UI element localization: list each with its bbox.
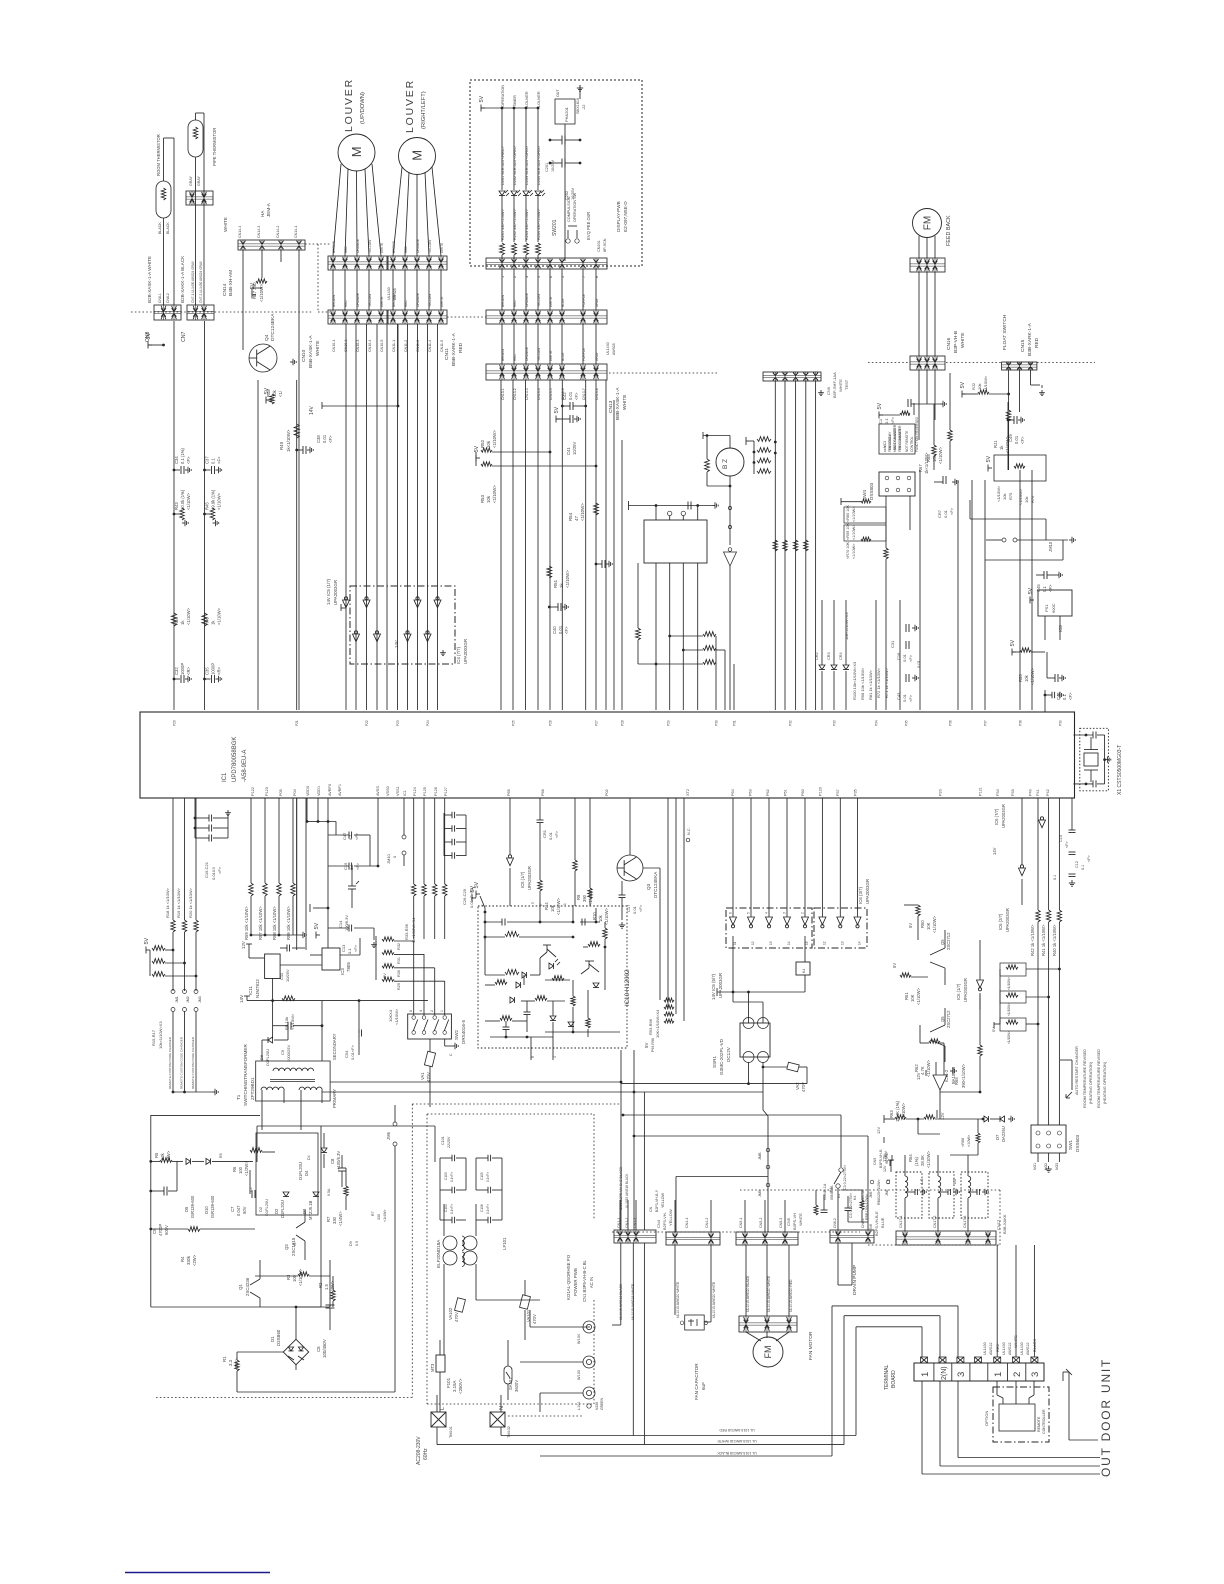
svg-text:<1/10W>: <1/10W> (1007, 1031, 1011, 1044)
label FLOAT SWITCH (1002, 314, 1008, 350)
resistor R49 (279, 424, 299, 452)
svg-text:<1/10W>: <1/10W> (938, 446, 943, 464)
svg-text:<F>: <F> (1087, 854, 1091, 862)
diode D5 (184, 1158, 204, 1218)
svg-text:ORANGE: ORANGE (525, 293, 529, 307)
svg-text:CR1: CR1 (542, 829, 547, 838)
svg-text:WHITE: WHITE (960, 333, 966, 348)
svg-text:10k: 10k (486, 440, 491, 448)
svg-text:B3PS-VH: B3PS-VH (792, 1213, 797, 1230)
svg-text:R9: R9 (576, 894, 581, 900)
svg-text:R45: R45 (205, 502, 210, 510)
svg-text:RED: RED (513, 300, 517, 307)
svg-text:AWG22: AWG22 (989, 1343, 993, 1355)
wire (919, 236, 935, 258)
svg-text:<F>: <F> (554, 830, 559, 838)
wire (919, 272, 935, 356)
svg-text:UPA2003GR: UPA2003GR (963, 978, 968, 1002)
svg-text:10k: 10k (550, 904, 555, 912)
svg-text:2: 2 (801, 912, 805, 914)
svg-text:<250V>: <250V> (458, 1378, 463, 1394)
svg-text:R67: R67 (918, 464, 923, 472)
wire (746, 1245, 793, 1316)
svg-text:R32: R32 (397, 943, 401, 950)
svg-text:BLACK: BLACK (158, 222, 162, 234)
connector CN17 (896, 1214, 1007, 1245)
svg-text:WHITE: WHITE (380, 297, 384, 307)
svg-text:YELLOW: YELLOW (428, 294, 432, 307)
opamp IC11-2 (916, 1056, 956, 1119)
caps C10 C12 (1053, 798, 1091, 886)
connector CN1 (614, 1200, 656, 1243)
svg-text:R19 1k <1/10W>: R19 1k <1/10W> (176, 887, 181, 918)
svg-text:YELLOW: YELLOW (428, 240, 432, 253)
svg-text:LOUVER: LOUVER (525, 91, 529, 107)
svg-text:Q1: Q1 (238, 1284, 243, 1290)
svg-text:5V: 5V (554, 406, 560, 413)
svg-text:ROOM TEMPERATURE REVISED: ROOM TEMPERATURE REVISED (1083, 1049, 1087, 1108)
svg-text:<F>: <F> (1065, 840, 1069, 848)
label B2P3 (830, 1149, 889, 1200)
svg-text:CN13-2: CN13-2 (513, 388, 517, 400)
capacitor C6 (149, 1161, 177, 1236)
inverter D8 (724, 548, 737, 710)
svg-text:WHITE: WHITE (549, 351, 553, 361)
svg-text:RJ2: RJ2 (971, 382, 976, 390)
wire (297, 798, 306, 950)
svg-text:P30: P30 (715, 720, 719, 726)
svg-text:C32: C32 (174, 667, 179, 675)
inverter IC5 pin0 (343, 597, 350, 608)
svg-text:P64: P64 (731, 789, 735, 796)
svg-text:0.01: 0.01 (568, 391, 573, 400)
svg-text:VA1: VA1 (420, 1072, 425, 1080)
svg-text:RED: RED (344, 300, 348, 307)
motor FM fan (746, 1331, 814, 1367)
svg-text:28.0K: 28.0K (920, 1155, 925, 1166)
blue reference line (125, 1572, 270, 1574)
jumper JM1C (386, 798, 406, 866)
diodes CR2-4 (815, 600, 849, 710)
svg-text:SW1: SW1 (1068, 1140, 1073, 1150)
svg-text:TEST: TEST (844, 379, 849, 390)
svg-text:JM2: JM2 (186, 996, 190, 1003)
svg-text:P31: P31 (733, 720, 737, 726)
svg-text:EZ-097,NSE-D: EZ-097,NSE-D (623, 201, 628, 232)
wire bus mid (733, 798, 805, 917)
svg-text:CN11: CN11 (444, 348, 450, 360)
resistor R64 (908, 1110, 984, 1168)
svg-text:C201: C201 (545, 163, 549, 172)
resistor R2 (318, 1276, 335, 1307)
svg-text:<1/10W>: <1/10W> (298, 1268, 303, 1286)
svg-text:<1/2W>: <1/2W> (244, 1161, 249, 1176)
wire (174, 321, 205, 710)
svg-text:R33-R36: R33-R36 (404, 923, 409, 940)
svg-text:5V: 5V (146, 332, 152, 339)
LED D202 (511, 95, 521, 261)
svg-text:AW928: AW928 (612, 343, 616, 355)
svg-text:5V: 5V (892, 963, 897, 968)
svg-text:60Hz: 60Hz (423, 1448, 429, 1460)
svg-text:C31: C31 (890, 640, 895, 648)
svg-text:CR3: CR3 (827, 652, 831, 660)
svg-text:1000/25V: 1000/25V (286, 1045, 291, 1062)
svg-text:<1/10W>: <1/10W> (492, 430, 497, 448)
capacitor C47 (297, 798, 370, 935)
svg-text:K4: K4 (802, 969, 806, 973)
svg-text:AWG22: AWG22 (1008, 1343, 1012, 1355)
labels wire colors (501, 293, 599, 307)
wire bus CN11 to IC1 (398, 324, 438, 710)
jumper bubbles (728, 506, 731, 528)
svg-text:B2P3-VH-: B2P3-VH- (662, 1211, 667, 1230)
svg-text:C106: C106 (480, 1204, 484, 1212)
svg-text:RED: RED (404, 300, 408, 307)
svg-text:<F>: <F> (354, 832, 359, 840)
wire (251, 798, 293, 883)
svg-text:JEM-A: JEM-A (266, 202, 271, 217)
svg-text:N: N (499, 1406, 505, 1410)
svg-text:330k: 330k (186, 1255, 191, 1265)
label UL1430 (387, 287, 397, 300)
svg-text:10/25V: 10/25V (551, 159, 555, 172)
svg-text:UL1015 AWG20 WHITE: UL1015 AWG20 WHITE (767, 1275, 771, 1312)
svg-text:AVRF0: AVRF0 (328, 784, 332, 796)
svg-text:<R60 10K: <R60 10K (846, 505, 850, 522)
svg-text:<1/10W>: <1/10W> (852, 543, 856, 559)
wires to outdoor (922, 1381, 1100, 1474)
svg-text:C14: C14 (338, 920, 343, 928)
resistor R70b (846, 542, 856, 559)
labels wire colors (332, 293, 384, 307)
capacitor C32 (173, 663, 192, 683)
svg-text:R7: R7 (326, 1216, 331, 1222)
resistor array R73-78 (746, 437, 777, 474)
svg-text:CN4: CN4 (656, 1219, 661, 1228)
svg-text:P33: P33 (833, 720, 837, 726)
wire (243, 250, 299, 710)
svg-text:OPTION: OPTION (984, 1411, 989, 1426)
svg-text:5V: 5V (877, 402, 883, 409)
svg-text:<1/10W>: <1/10W> (1007, 977, 1011, 990)
svg-text:P04: P04 (293, 789, 297, 796)
wire (196, 113, 205, 305)
IC U1 main micro (140, 712, 1075, 798)
svg-text:2SC4236: 2SC4236 (245, 1277, 250, 1296)
resistor R51 (547, 566, 570, 588)
svg-text:R6: R6 (232, 1166, 237, 1172)
wire (173, 798, 196, 920)
svg-text:2(N): 2(N) (941, 1366, 948, 1380)
svg-text:AW928: AW928 (393, 288, 397, 300)
svg-text:FEED BACK: FEED BACK (946, 215, 952, 246)
connector M1 plug (328, 256, 387, 270)
svg-text:5V: 5V (474, 445, 480, 452)
svg-text:JM6: JM6 (386, 1131, 391, 1140)
wire (333, 270, 381, 310)
svg-text:D10: D10 (204, 1206, 209, 1214)
terminal TM101 (431, 1395, 453, 1445)
svg-text:P41: P41 (1036, 789, 1040, 796)
svg-text:P122: P122 (251, 787, 255, 796)
svg-text:BROWN: BROWN (392, 240, 396, 253)
svg-text:WHITE: WHITE (380, 243, 384, 253)
svg-text:P05: P05 (279, 789, 283, 796)
svg-text:-22: -22 (582, 105, 586, 111)
svg-text:P37: P37 (836, 789, 840, 796)
capacitor C41 (554, 406, 580, 455)
dotted net line (305, 244, 330, 312)
svg-text:0.1<F>: 0.1<F> (450, 1172, 454, 1182)
svg-text:CN14-2: CN14-2 (276, 226, 280, 238)
resistors R40-42 (1030, 798, 1062, 1125)
capacitor C15 (328, 798, 379, 870)
wire (502, 324, 596, 364)
svg-text:R1: R1 (222, 1356, 227, 1362)
arrester SA101 (504, 1340, 519, 1400)
svg-text:DSS803: DSS803 (869, 482, 874, 500)
svg-text:P34: P34 (996, 789, 1000, 796)
svg-text:JMB: JMB (758, 1152, 762, 1160)
connector CN9 (486, 310, 607, 324)
LED D201 (499, 85, 509, 261)
svg-text:C42: C42 (562, 392, 567, 400)
switch SW201 (552, 192, 607, 252)
svg-text:FAN CAPACITOR: FAN CAPACITOR (694, 1363, 699, 1400)
capacitor C40 (548, 603, 569, 634)
label CN16 (946, 331, 966, 353)
svg-text:0.1: 0.1 (1081, 865, 1085, 870)
svg-text:R14: R14 (544, 902, 549, 910)
svg-text:R49: R49 (279, 441, 284, 450)
svg-text:22/25V: 22/25V (447, 1136, 451, 1148)
svg-text:Q5: Q5 (940, 939, 945, 945)
svg-text:0.01: 0.01 (902, 653, 907, 662)
svg-text:UL1430: UL1430 (387, 287, 391, 300)
svg-text:D1FL20U: D1FL20U (280, 1200, 285, 1218)
svg-text:1.5: 1.5 (324, 1284, 329, 1290)
svg-text:D2: D2 (258, 1206, 263, 1212)
svg-text:10K: 10K (910, 994, 915, 1002)
varistor VA1 (420, 1039, 436, 1107)
svg-text:WHITE: WHITE (838, 379, 843, 392)
svg-text:CN5: CN5 (786, 1217, 791, 1226)
svg-text:BROWN: BROWN (501, 348, 505, 361)
caps AC filter C101-106 (440, 1136, 502, 1223)
resistor R61 (892, 963, 928, 1005)
svg-text:10k: 10k (1024, 674, 1029, 682)
svg-text:CN: CN (649, 1206, 653, 1212)
svg-text:14V: 14V (309, 405, 315, 415)
svg-text:IC4 (7/7): IC4 (7/7) (456, 646, 461, 664)
svg-text:<R>: <R> (217, 667, 222, 675)
svg-text:CN1 B3P5-VH-B-C BLACK: CN1 B3P5-VH-B-C BLACK (619, 1166, 623, 1210)
svg-text:R63: R63 (889, 1110, 894, 1118)
svg-text:<F>: <F> (564, 626, 569, 634)
svg-text:<10W>: <10W> (967, 1134, 971, 1147)
svg-text:LOUVER: LOUVER (343, 78, 355, 132)
svg-text:1: 1 (563, 903, 567, 905)
svg-text:14V IC5 (5/7): 14V IC5 (5/7) (711, 973, 716, 1000)
svg-text:BROWN: BROWN (501, 294, 505, 307)
label NC (686, 827, 691, 841)
labels wire colors (392, 293, 444, 307)
svg-text:G5NB-1A: G5NB-1A (861, 1189, 865, 1205)
svg-text:B3B-XARK-1-A: B3B-XARK-1-A (1027, 322, 1033, 356)
svg-text:P60: P60 (801, 789, 805, 796)
svg-text:P123: P123 (265, 787, 269, 796)
svg-text:R75: R75 (1008, 492, 1013, 500)
connector CN9 test (763, 372, 849, 398)
svg-text:0.01: 0.01 (902, 693, 907, 702)
svg-text:C1: C1 (878, 418, 883, 424)
resistor RJ2 (960, 375, 1045, 397)
svg-text:CN8-2: CN8-2 (166, 293, 170, 303)
caps C26-C29 (444, 812, 474, 908)
svg-text:-A58-9EU-A: -A58-9EU-A (242, 750, 248, 782)
svg-text:1: 1 (920, 1372, 931, 1377)
svg-text:<F>: <F> (908, 694, 913, 702)
svg-text:<1/4W>: <1/4W> (338, 1211, 343, 1226)
svg-text:<F>: <F> (574, 392, 579, 400)
svg-text:P25: P25 (512, 720, 516, 726)
svg-text:B5P-SHF-1AA: B5P-SHF-1AA (832, 372, 837, 398)
svg-text:0.1: 0.1 (1062, 694, 1067, 700)
svg-text:R2: R2 (318, 1282, 323, 1288)
svg-text:CN11-1: CN11-1 (392, 340, 396, 352)
svg-text:C3 0.22<275V>: C3 0.22<275V> (843, 1165, 847, 1190)
svg-text:UL 1015 AWG18 WHITE: UL 1015 AWG18 WHITE (717, 1439, 757, 1443)
svg-text:CN9: CN9 (826, 386, 831, 395)
resistor RJ1 (993, 393, 1011, 470)
svg-text:R20 1k <1/10W>: R20 1k <1/10W> (188, 887, 193, 918)
label CN10 header (301, 335, 321, 368)
svg-text:UL1015 AWG20 BLACK: UL1015 AWG20 BLACK (746, 1275, 750, 1312)
svg-text:5V: 5V (382, 973, 387, 978)
svg-text:IC1: IC1 (222, 772, 228, 782)
svg-text:470V: 470V (454, 1312, 459, 1322)
svg-text:UPA2003GR: UPA2003GR (865, 879, 870, 904)
connector CN14 (222, 202, 305, 296)
svg-text:N.C.: N.C. (687, 827, 691, 835)
svg-text:<1/10W>: <1/10W> (1007, 1003, 1011, 1016)
svg-text:JM3: JM3 (198, 996, 202, 1003)
eyelets W104 W103 L101 (577, 1321, 604, 1410)
svg-text:R100 10k<1/10W>X3: R100 10k<1/10W>X3 (852, 661, 857, 700)
svg-text:R54: R54 (568, 512, 573, 521)
svg-text:<1/10W>: <1/10W> (926, 1150, 931, 1168)
svg-text:CN16: CN16 (946, 337, 952, 350)
svg-text:390: 390 (582, 894, 587, 902)
svg-text:<1/10W>: <1/10W> (186, 492, 191, 510)
svg-text:<F>: <F> (908, 654, 913, 662)
resistor R53 (474, 445, 597, 503)
resistor R68 (926, 373, 952, 470)
resistor R46 (202, 607, 222, 626)
svg-text:SSR1: SSR1 (712, 1056, 717, 1068)
svg-text:CN17-2: CN17-2 (933, 1216, 937, 1228)
svg-text:D6: D6 (259, 1054, 264, 1060)
svg-text:R5: R5 (219, 1153, 223, 1158)
svg-text:R204 330 <1/4W>: R204 330 <1/4W> (537, 208, 541, 240)
svg-text:<1/10W>: <1/10W> (217, 607, 222, 625)
svg-text:G3MC-202PL-VD: G3MC-202PL-VD (719, 1038, 724, 1075)
svg-text:14V: 14V (992, 847, 997, 855)
jumpers JMB JM5 (758, 1148, 770, 1197)
diode D2 (274, 1192, 289, 1218)
svg-text:BLUE: BLUE (561, 299, 565, 307)
svg-text:JM10: JM10 (386, 853, 391, 864)
svg-text:R42 1k <1/10W>: R42 1k <1/10W> (1030, 924, 1035, 956)
svg-text:C47: C47 (342, 832, 347, 840)
svg-text:UPA2003GR: UPA2003GR (1001, 804, 1006, 828)
svg-text:C34: C34 (174, 456, 179, 464)
power loop wires (151, 1115, 435, 1307)
connector FM plug (910, 258, 945, 272)
labels CN11 pins (392, 340, 444, 352)
svg-text:UL1015 AWG20 WHITE: UL1015 AWG20 WHITE (712, 1281, 716, 1318)
svg-text:CN4-1: CN4-1 (685, 1218, 689, 1228)
power sub box (256, 1133, 318, 1215)
svg-text:CN5-2: CN5-2 (759, 1218, 763, 1228)
svg-text:<1/10W>: <1/10W> (932, 915, 937, 933)
svg-text:CONTROL: CONTROL (910, 436, 914, 452)
svg-text:100: 100 (238, 1166, 243, 1174)
dotted net line (447, 316, 486, 318)
svg-text:<1/10W>: <1/10W> (565, 570, 570, 588)
varistor VA2 (747, 1062, 807, 1092)
svg-text:IC6 (1/7): IC6 (1/7) (956, 983, 961, 1000)
inverter IC5 pin1 (363, 597, 370, 608)
connector CN8 (145, 222, 181, 342)
svg-text:14V: 14V (239, 994, 244, 1003)
capacitor C45 (1036, 571, 1062, 592)
label OUT DOOR UNIT (1099, 1358, 1113, 1477)
svg-text:<1/10W>: <1/10W> (186, 607, 191, 625)
svg-text:<R>: <R> (186, 667, 191, 675)
svg-text:C7: C7 (230, 1206, 235, 1212)
svg-text:AUTO RESTART CHANGER: AUTO RESTART CHANGER (1075, 1046, 1079, 1095)
svg-text:7805: 7805 (346, 962, 351, 972)
svg-text:R18 1k <1/10W>: R18 1k <1/10W> (165, 887, 170, 918)
svg-text:L4: L4 (919, 1179, 924, 1184)
svg-text:330: 330 (377, 1214, 381, 1220)
svg-text:3600V: 3600V (514, 1380, 519, 1392)
svg-text:R76: R76 (1030, 495, 1035, 503)
svg-text:R64: R64 (908, 1154, 913, 1162)
svg-text:R71 1k <1/10W>: R71 1k <1/10W> (884, 667, 889, 698)
svg-text:R65: R65 (954, 1077, 959, 1085)
svg-text:W103: W103 (577, 1370, 581, 1380)
wire (1009, 370, 1042, 412)
labels auto restart (1060, 1046, 1107, 1108)
fan capacitor (675, 1245, 716, 1400)
svg-text:0.1<F>: 0.1<F> (486, 1172, 490, 1182)
svg-text:VSS0: VSS0 (386, 786, 390, 796)
connector CN5 (736, 1200, 803, 1245)
svg-text:DC12V: DC12V (726, 1046, 731, 1062)
svg-text:P40: P40 (1029, 789, 1033, 796)
svg-text:1k: 1k (559, 583, 564, 588)
svg-text:X1 CSTS0500MG03-T: X1 CSTS0500MG03-T (1117, 745, 1123, 795)
svg-text:DTC124EKA: DTC124EKA (653, 871, 658, 898)
svg-text:D1FL20U: D1FL20U (264, 1199, 269, 1216)
transistor Q3 (617, 798, 660, 898)
svg-text:R41 1k <1/10W>: R41 1k <1/10W> (1041, 924, 1046, 956)
resistor R10 (588, 798, 609, 925)
diode D3 (302, 1192, 319, 1220)
